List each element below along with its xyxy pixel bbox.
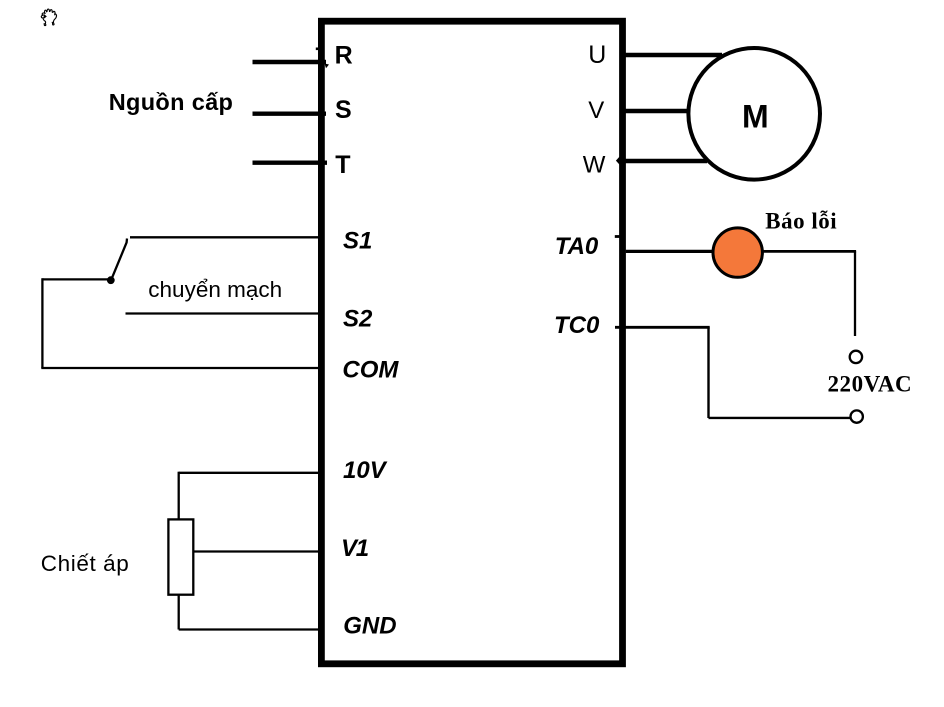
- wire 10V: [179, 472, 325, 474]
- svg-text:chuyển mạch: chuyển mạch: [148, 277, 282, 302]
- wire S2: [126, 312, 325, 314]
- terminal circle bottom: [851, 410, 863, 422]
- switch blade: [111, 239, 127, 281]
- wire V output: [623, 109, 688, 113]
- wire GND: [179, 628, 325, 630]
- inverter box: [321, 21, 622, 664]
- hand cursor icon: [41, 9, 56, 26]
- wire S input: [253, 111, 327, 115]
- svg-text:220VAC: 220VAC: [828, 372, 913, 397]
- wire T input: [253, 160, 328, 164]
- wire pot bottom vertical: [178, 595, 180, 630]
- wire R input: [253, 60, 327, 64]
- wire TA0 to lamp: [626, 250, 713, 253]
- indicator lamp Báo lỗi: [713, 228, 762, 277]
- switch common dot: [107, 276, 115, 284]
- svg-text:GND: GND: [343, 613, 396, 640]
- svg-text:T: T: [335, 151, 350, 179]
- svg-text:S2: S2: [343, 306, 373, 333]
- terminal circle top: [850, 351, 862, 363]
- svg-text:V1: V1: [341, 535, 369, 562]
- wire TC0 to terminal: [709, 417, 851, 419]
- wire S1: [130, 236, 325, 238]
- svg-text:M: M: [742, 99, 769, 135]
- artifact mark at R pin: [325, 64, 330, 69]
- junction dot W: [616, 157, 623, 165]
- switch common wire: [42, 278, 109, 280]
- svg-text:10V: 10V: [343, 457, 388, 484]
- svg-text:Báo lỗi: Báo lỗi: [765, 209, 837, 234]
- svg-text:COM: COM: [342, 357, 399, 384]
- wire terminal vertical: [854, 251, 856, 336]
- wire pot top vertical: [178, 472, 180, 520]
- svg-text:Chiết áp: Chiết áp: [41, 551, 130, 576]
- svg-text:R: R: [335, 42, 353, 70]
- wire COM: [41, 367, 324, 369]
- wire TC0 horizontal: [615, 326, 710, 329]
- pin tick TA0: [615, 235, 621, 238]
- svg-text:W: W: [583, 152, 606, 179]
- wire W output: [623, 159, 707, 163]
- svg-text:S: S: [335, 96, 352, 124]
- wire lamp to terminal: [763, 250, 857, 253]
- svg-text:S1: S1: [343, 227, 372, 254]
- wire switch vertical: [41, 278, 43, 368]
- potentiometer body: [168, 519, 193, 594]
- svg-text:V: V: [588, 97, 604, 124]
- svg-text:U: U: [588, 41, 606, 69]
- svg-text:TC0: TC0: [554, 312, 600, 339]
- wire TC0 vertical: [707, 327, 709, 418]
- svg-text:Nguồn cấp: Nguồn cấp: [109, 89, 234, 115]
- wire U output: [623, 53, 722, 58]
- motor M circle: [688, 48, 820, 180]
- wire V1: [193, 550, 324, 552]
- svg-text:TA0: TA0: [555, 233, 599, 260]
- pin tick R: [316, 47, 322, 50]
